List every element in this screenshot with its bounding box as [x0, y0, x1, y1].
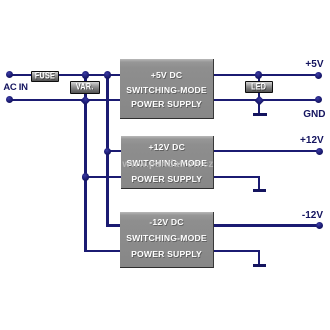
terminal +12V [316, 148, 323, 155]
wire -12V input [106, 224, 121, 226]
wire -12V ground stub vertical [258, 250, 260, 266]
node junction top line / bus 2 [104, 71, 111, 78]
node junction bottom line / bus 1 [81, 95, 90, 104]
-12V DC switching-mode power supply U3 [120, 212, 214, 268]
terminal GND [315, 96, 322, 103]
label AC IN [2, 82, 29, 93]
wire bottom AC line [10, 99, 121, 101]
wire +12V ground stub vertical [258, 176, 260, 190]
wire +12V return input [84, 176, 121, 178]
label GND [297, 109, 326, 120]
wire GND output [213, 99, 319, 101]
terminal AC IN live [6, 71, 13, 78]
wire +5V output [213, 74, 319, 76]
wire -12V output [213, 224, 320, 226]
wire vertical bus line 2 [106, 74, 108, 227]
watermark [110, 159, 226, 170]
wire +12V input [106, 150, 121, 152]
wire +12V ground stub horizontal [213, 176, 260, 178]
terminal AC IN neutral [6, 96, 13, 103]
label -12V [294, 210, 323, 221]
wire vertical bus line 1 [84, 74, 86, 252]
ground bar -12V supply [253, 264, 266, 267]
wire -12V return input [84, 250, 121, 252]
wire LED vertical [258, 74, 260, 115]
label +12V [295, 135, 324, 146]
wire +12V output [213, 150, 320, 152]
ground bar +12V supply [253, 189, 266, 192]
node junction bus 1 / +12V return [82, 173, 89, 180]
node junction GND line / LED [254, 95, 263, 104]
LED indicator D1 [245, 81, 273, 94]
ground bar below LED [253, 113, 267, 116]
terminal +5V [315, 72, 322, 79]
+5V DC switching-mode power supply U1 [120, 59, 214, 119]
+12V DC switching-mode power supply U2 [121, 136, 215, 189]
node junction top line / bus 1 [82, 71, 89, 78]
terminal -12V [316, 222, 323, 229]
node junction bus 2 / +12V input [104, 148, 111, 155]
node junction +5V line / LED [255, 71, 262, 78]
label +5V [296, 59, 324, 70]
wire -12V ground stub horizontal [213, 250, 260, 252]
wire top AC line [10, 74, 121, 76]
fuse F1 [31, 71, 59, 82]
varistor VAR [70, 81, 100, 95]
